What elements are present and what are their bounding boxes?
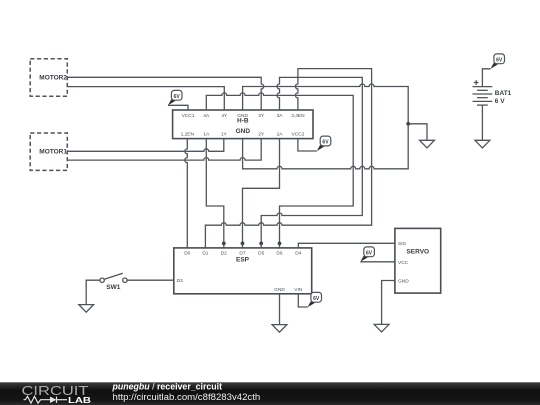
svg-text:GND: GND [274, 287, 285, 293]
wire ESP VIN to 6V flag [298, 294, 307, 307]
ground G4 at H-B GND net [420, 140, 435, 148]
wire 6V flag to SERVO VCC [360, 261, 395, 263]
svg-text:http://circuitlab.com/c8f8283v: http://circuitlab.com/c8f8283v42cth [113, 392, 261, 403]
flag 6V at battery [491, 54, 505, 69]
junction at GND net ground branch [406, 122, 410, 126]
svg-text:2A: 2A [277, 131, 284, 137]
svg-text:4Y: 4Y [221, 113, 228, 119]
svg-text:D5: D5 [258, 250, 264, 256]
wire SW1 to ESP D3 [127, 279, 174, 281]
junction at ESP D2 [222, 242, 226, 246]
wire MOTOR1-B to H-B 2Y [67, 139, 261, 161]
ground G5 at battery [475, 140, 490, 148]
wire H-B 2A to ESP D7 [243, 139, 280, 248]
wire SW1 to ground [86, 280, 100, 304]
wire H-B VCC2 to 6V flag [298, 139, 317, 151]
wire GND net loop H-B top GND to bottom GND [243, 84, 409, 169]
svg-text:punegbu / receiver_circuit: punegbu / receiver_circuit [112, 382, 223, 392]
svg-text:D2: D2 [221, 250, 227, 256]
wire H-B 3A to ESP D5 [261, 77, 362, 248]
svg-text:LAB: LAB [68, 396, 91, 405]
svg-text:ESP: ESP [236, 256, 250, 263]
svg-text:D0: D0 [184, 250, 190, 256]
switch SW1 [100, 273, 127, 291]
chip U2 ESP microcontroller [174, 248, 312, 294]
wire battery minus to ground [481, 105, 483, 140]
svg-text:1A: 1A [203, 131, 210, 137]
ground G1 at SW1 [79, 305, 94, 313]
svg-text:MOTOR2: MOTOR2 [39, 75, 67, 82]
ground G2 at ESP GND [272, 325, 287, 333]
chip U3 SERVO [395, 228, 441, 293]
svg-text:6 V: 6 V [495, 98, 505, 105]
junction at ESP D6 [278, 242, 282, 246]
junction at ESP D5 [259, 242, 263, 246]
svg-text:VCC1: VCC1 [182, 113, 195, 119]
svg-text:GND: GND [237, 113, 248, 119]
chip U1 H-B h-bridge [173, 110, 313, 139]
footer bar [0, 382, 540, 405]
ground G3 at SERVO GND [374, 324, 389, 332]
wire VCC1 to 6V flag [168, 105, 188, 110]
svg-text:3Y: 3Y [258, 113, 265, 119]
motor MOTOR2 [30, 59, 67, 96]
svg-text:MOTOR1: MOTOR1 [39, 149, 67, 156]
wire battery plus to 6V flag [482, 69, 490, 87]
svg-text:1,2EN: 1,2EN [181, 131, 195, 137]
wire MOTOR1-A to H-B 1Y [67, 139, 224, 152]
flag 6V at VCC2 [317, 136, 331, 151]
svg-text:2Y: 2Y [258, 131, 265, 137]
flag 6V at ESP VIN [308, 292, 322, 307]
wire H-B 1A to ESP D2 [206, 139, 224, 248]
svg-text:D6: D6 [276, 250, 282, 256]
svg-text:D1: D1 [202, 250, 208, 256]
svg-text:GND: GND [398, 278, 409, 284]
svg-text:3A: 3A [277, 113, 284, 119]
wire MOTOR2-B to H-B 4Y [67, 87, 224, 110]
wire H-B 3,4EN to ESP D1 [205, 69, 371, 248]
footer text [112, 382, 261, 403]
svg-text:D4: D4 [295, 250, 301, 256]
wire SERVO GND to ground [382, 281, 395, 325]
svg-text:3,4EN: 3,4EN [291, 113, 305, 119]
svg-text:VIN: VIN [294, 287, 303, 293]
CircuitLab logo [22, 384, 92, 405]
svg-text:SW1: SW1 [106, 284, 120, 291]
svg-text:BAT1: BAT1 [495, 90, 512, 97]
svg-text:VCC2: VCC2 [292, 131, 305, 137]
motor MOTOR1 [30, 133, 67, 170]
flag 6V at VCC1 [168, 90, 182, 105]
svg-text:SIG: SIG [398, 241, 407, 247]
battery BAT1 6V [473, 80, 512, 105]
svg-text:1Y: 1Y [221, 131, 228, 137]
flag 6V at SERVO VCC [360, 247, 374, 262]
junction at ESP D7 [241, 242, 245, 246]
svg-text:D7: D7 [239, 250, 245, 256]
wire ESP GND to ground [279, 294, 281, 325]
svg-text:4A: 4A [203, 113, 210, 119]
svg-text:SERVO: SERVO [406, 248, 429, 255]
svg-text:VCC: VCC [398, 260, 409, 266]
wire H-B 1,2EN to ESP D0 [185, 139, 187, 248]
wire MOTOR2-A to H-B 3Y [67, 77, 263, 110]
svg-text:GND: GND [236, 128, 251, 135]
svg-text:D3: D3 [177, 278, 183, 284]
wire ESP D4 to SERVO SIG [298, 243, 395, 248]
wire GND net branch to ground [408, 124, 427, 141]
wire H-B 4A to ESP D6 [206, 93, 353, 248]
